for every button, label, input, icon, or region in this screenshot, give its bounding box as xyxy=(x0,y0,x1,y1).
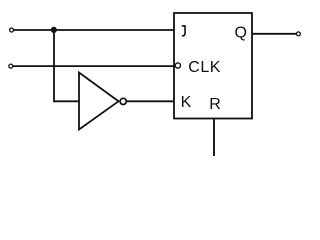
svg-text:K: K xyxy=(181,94,192,111)
terminal input 2 xyxy=(9,64,13,68)
node junction xyxy=(51,27,57,33)
CLK inversion bubble xyxy=(175,63,180,68)
wire R reset xyxy=(213,119,215,156)
svg-text:R: R xyxy=(209,96,221,113)
wire junction drop to inverter xyxy=(54,30,79,101)
terminal output Q xyxy=(296,32,300,36)
flip-flop U1 body xyxy=(174,13,252,119)
inverter output bubble xyxy=(120,98,126,104)
wire Q output xyxy=(252,33,296,35)
svg-text:CLK: CLK xyxy=(188,59,221,76)
wire inverter to K xyxy=(127,100,174,102)
wire J input xyxy=(14,29,175,31)
wire CLK input xyxy=(13,65,176,67)
svg-text:Q: Q xyxy=(235,24,247,41)
inverter U2 triangle xyxy=(79,73,119,130)
pin label J xyxy=(182,26,185,36)
terminal input 1 xyxy=(10,28,14,32)
